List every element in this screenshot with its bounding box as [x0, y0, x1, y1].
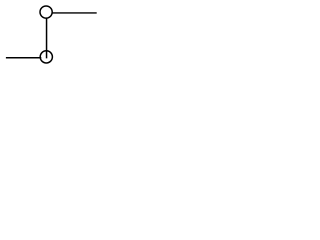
- wire (vertical connecting segment): [46, 18, 48, 58]
- terminal pin 1 (top open circle): [40, 6, 52, 18]
- wire (right lead from pin 1): [52, 12, 96, 14]
- wire (left lead to pin 2): [6, 57, 41, 59]
- terminal pin 2 (bottom open circle): [40, 51, 52, 63]
